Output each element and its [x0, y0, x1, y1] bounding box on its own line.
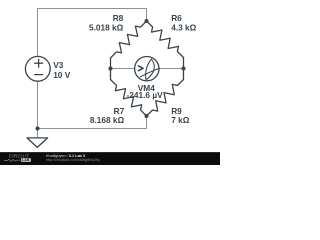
wire: R8 lead stub to left node [110, 58, 112, 69]
wire: left node to voltmeter [111, 68, 136, 70]
wire: left rail from V3 bottom to ground junction [37, 81, 39, 128]
wire: junction to ground symbol [37, 129, 39, 138]
voltage source V3 [25, 56, 50, 81]
wire: voltmeter to right node [159, 68, 184, 70]
svg-text:8.168 kΩ: 8.168 kΩ [90, 115, 125, 125]
resistor R9 [147, 80, 184, 117]
svg-text:R8: R8 [113, 13, 124, 23]
svg-text:LAB: LAB [22, 158, 30, 162]
svg-text:4.3 kΩ: 4.3 kΩ [171, 22, 196, 32]
node bottom [145, 114, 149, 118]
resistor R8 [111, 21, 147, 58]
node top [145, 19, 149, 23]
wire: bottom rail from ground junction to bridge bottom node [38, 116, 147, 129]
svg-text:Khalilguyen / 3.1 Lab 3: Khalilguyen / 3.1 Lab 3 [46, 154, 85, 158]
footer bar [0, 152, 220, 165]
node right [182, 67, 186, 71]
node ground junction [36, 127, 40, 131]
svg-text:R6: R6 [171, 13, 182, 23]
svg-text:5.018 kΩ: 5.018 kΩ [89, 22, 124, 32]
svg-text:-241.6 µV: -241.6 µV [127, 90, 164, 100]
node left [109, 67, 113, 71]
ground symbol triangle [27, 138, 48, 148]
labels [53, 13, 196, 125]
svg-text:10 V: 10 V [53, 70, 71, 80]
svg-text:7 kΩ: 7 kΩ [171, 115, 190, 125]
voltmeter VM4 [135, 56, 160, 80]
resistor R7 [111, 80, 147, 117]
wire: left node to R7 lead stub [110, 69, 112, 80]
wire: R6 lead stub to right node [183, 58, 185, 69]
svg-text:http://circuitlab.com/c68fyj8f: http://circuitlab.com/c68fyj8fxk29p [46, 158, 100, 162]
wire: top rail from V3 top to bridge top node [38, 9, 147, 57]
svg-text:V3: V3 [53, 60, 64, 70]
wire: right node to R9 lead stub [183, 69, 185, 80]
footer logo CircuitLab [4, 153, 100, 162]
resistor R6 [147, 21, 184, 58]
